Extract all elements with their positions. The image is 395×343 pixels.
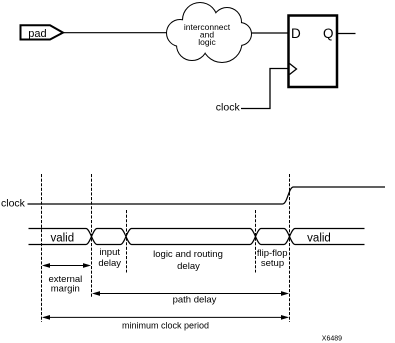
svg-text:valid: valid: [307, 232, 331, 244]
svg-text:path delay: path delay: [173, 295, 217, 306]
data bus top path: [29, 229, 365, 245]
dashed marker line 5: [289, 174, 291, 322]
dashed marker line 2: [91, 174, 93, 298]
svg-text:pad: pad: [28, 28, 46, 40]
svg-text:margin: margin: [51, 284, 80, 295]
svg-text:logic and routing: logic and routing: [153, 249, 223, 260]
svg-text:delay: delay: [98, 258, 121, 269]
dashed marker line 4: [255, 210, 257, 273]
svg-text:Q: Q: [323, 26, 334, 41]
path delay arrow: [94, 293, 288, 295]
clock wire: [241, 69, 288, 109]
dashed marker line 3: [126, 210, 128, 273]
external margin arrow: [44, 265, 90, 267]
wire cloud to flip-flop D: [251, 32, 288, 34]
dashed marker line 1: [41, 174, 43, 322]
pad symbol: [21, 25, 64, 40]
svg-text:D: D: [291, 26, 301, 41]
wire pad to cloud: [63, 32, 169, 34]
minimum clock period arrow: [44, 316, 288, 318]
svg-text:X6489: X6489: [322, 335, 342, 342]
wire Q output: [338, 33, 356, 35]
svg-text:clock: clock: [216, 102, 241, 114]
svg-text:delay: delay: [177, 261, 200, 272]
svg-text:setup: setup: [261, 258, 284, 269]
flip-flop U1: [289, 16, 338, 88]
svg-text:minimum clock period: minimum clock period: [122, 321, 209, 331]
svg-text:logic: logic: [198, 37, 216, 47]
data bus bottom path: [29, 229, 365, 245]
svg-text:clock: clock: [1, 198, 26, 210]
svg-text:valid: valid: [50, 232, 74, 244]
cloud interconnect and logic: [167, 3, 251, 62]
clock waveform trace: [28, 187, 386, 204]
clock input triangle: [290, 64, 297, 75]
svg-text:input: input: [99, 247, 120, 258]
